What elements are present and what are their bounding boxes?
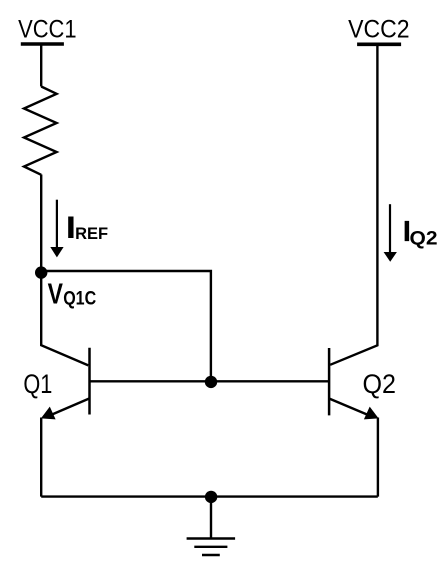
- svg-text:VCC1: VCC1: [18, 15, 77, 43]
- svg-text:VCC2: VCC2: [348, 15, 410, 43]
- svg-text:V: V: [48, 279, 64, 311]
- svg-text:Q2: Q2: [410, 228, 438, 250]
- svg-text:Q1: Q1: [23, 369, 52, 399]
- svg-text:Q1C: Q1C: [63, 288, 96, 310]
- svg-text:I: I: [67, 211, 75, 244]
- svg-text:REF: REF: [75, 225, 108, 243]
- svg-text:Q2: Q2: [363, 369, 397, 399]
